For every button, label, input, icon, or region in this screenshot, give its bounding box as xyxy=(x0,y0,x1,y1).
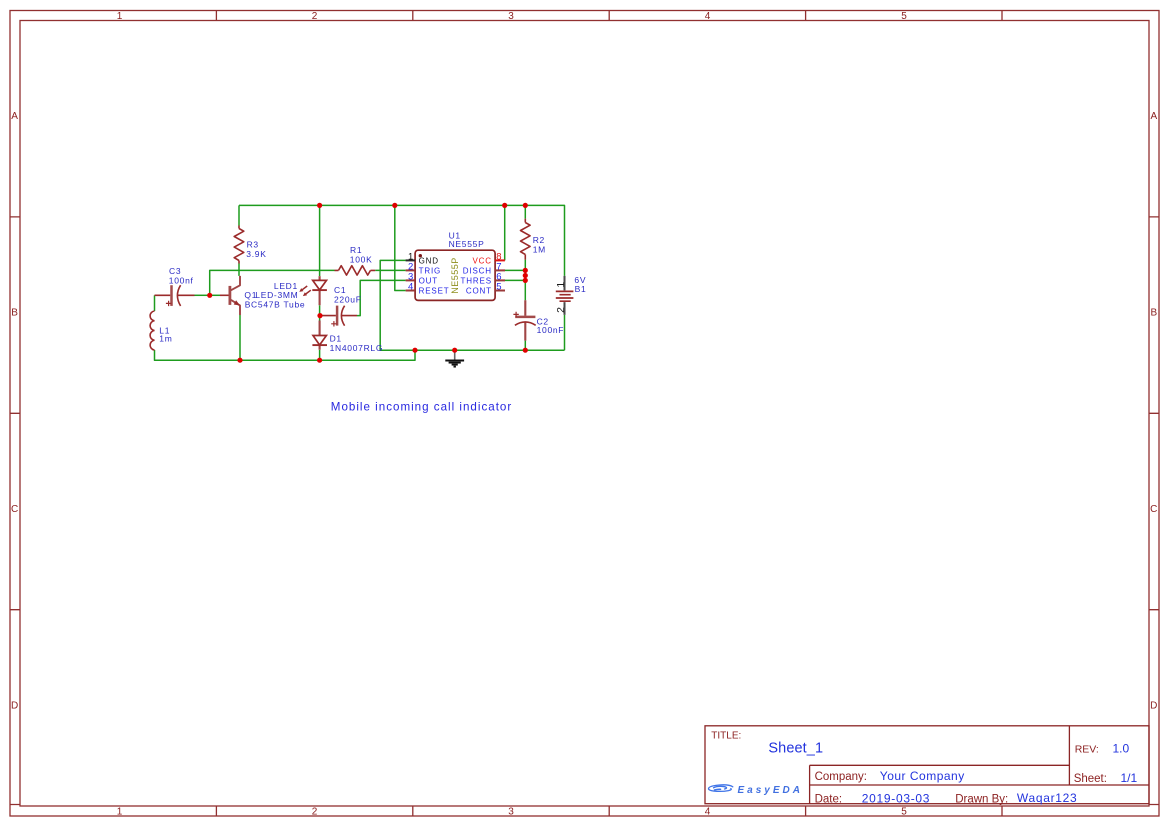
U1 pin 4 xyxy=(406,290,416,292)
svg-text:Date:: Date: xyxy=(815,793,843,805)
wire R1 to pin2 xyxy=(375,269,405,271)
svg-text:R1: R1 xyxy=(350,245,362,255)
wire top VCC bus xyxy=(155,205,565,360)
svg-text:3: 3 xyxy=(508,11,514,22)
battery B1 xyxy=(564,276,566,315)
svg-text:REV:: REV: xyxy=(1075,743,1099,755)
svg-text:CONT: CONT xyxy=(466,287,492,296)
U1 pin 3 xyxy=(406,279,416,281)
svg-text:Drawn By:: Drawn By: xyxy=(955,793,1008,805)
resistor R1 xyxy=(335,266,376,275)
resistor R3 xyxy=(234,226,244,264)
resistor R2 xyxy=(521,219,531,260)
wire LED1 to C1 node xyxy=(319,305,321,320)
title block xyxy=(705,726,1149,804)
svg-text:BC547B Tube: BC547B Tube xyxy=(245,300,306,310)
wire GND net xyxy=(380,260,564,350)
wire C2 to GND net xyxy=(524,341,526,351)
svg-text:VCC: VCC xyxy=(472,256,491,265)
svg-text:OUT: OUT xyxy=(419,277,438,286)
svg-text:Sheet:: Sheet: xyxy=(1074,773,1107,785)
U1 pin 7 xyxy=(495,269,505,271)
svg-text:Waqar123: Waqar123 xyxy=(1017,791,1078,805)
EasyEDA logo xyxy=(709,785,733,792)
svg-text:Sheet_1: Sheet_1 xyxy=(768,741,823,757)
svg-text:3: 3 xyxy=(508,807,514,818)
junction dots xyxy=(207,203,528,363)
svg-text:D: D xyxy=(11,700,18,711)
svg-text:GND: GND xyxy=(419,256,439,265)
svg-text:5: 5 xyxy=(901,807,907,818)
svg-text:B: B xyxy=(11,308,18,319)
wire DISCH pin7 to R2 xyxy=(505,269,525,271)
svg-text:2019-03-03: 2019-03-03 xyxy=(862,791,930,805)
svg-text:NE555P: NE555P xyxy=(449,239,485,249)
wire R3 bottom to Q1 collector xyxy=(238,264,240,276)
LED LED1 xyxy=(302,276,327,305)
svg-text:EasyEDA: EasyEDA xyxy=(738,785,803,796)
capacitor C1 xyxy=(322,306,357,327)
svg-text:TITLE:: TITLE: xyxy=(711,730,741,741)
wire D1 to bottom bus xyxy=(319,350,321,360)
svg-text:RESET: RESET xyxy=(419,287,450,296)
svg-text:1: 1 xyxy=(117,11,123,22)
svg-text:1M: 1M xyxy=(533,244,546,254)
ground xyxy=(445,350,464,366)
wire bus to VCC pin8 xyxy=(504,205,506,260)
svg-text:Mobile incoming call indicator: Mobile incoming call indicator xyxy=(331,400,512,413)
svg-text:TRIG: TRIG xyxy=(419,267,442,276)
U1 pin 2 xyxy=(406,269,416,271)
svg-text:4: 4 xyxy=(408,282,413,293)
svg-text:1: 1 xyxy=(117,807,123,818)
svg-text:5: 5 xyxy=(901,11,907,22)
svg-text:C1: C1 xyxy=(334,285,346,295)
wire L1 to bottom bus xyxy=(155,350,416,360)
transistor Q1 xyxy=(220,276,240,315)
svg-text:2: 2 xyxy=(312,11,318,22)
wire bus to RESET pin4 xyxy=(395,205,406,290)
svg-text:1.0: 1.0 xyxy=(1113,741,1130,755)
svg-text:2: 2 xyxy=(312,807,318,818)
svg-text:A: A xyxy=(11,111,18,122)
svg-text:100nf: 100nf xyxy=(169,276,194,286)
inductor L1 xyxy=(150,311,154,350)
svg-text:4: 4 xyxy=(705,11,711,22)
U1 pin 5 xyxy=(495,290,505,292)
svg-text:THRES: THRES xyxy=(461,277,492,286)
wire THRES pin6 to R2 xyxy=(505,279,525,281)
svg-text:1m: 1m xyxy=(159,334,172,344)
svg-text:NE555P: NE555P xyxy=(450,257,460,294)
wire bus to LED1 xyxy=(319,205,321,276)
svg-text:2: 2 xyxy=(555,307,567,313)
capacitor C3 xyxy=(155,285,195,306)
svg-text:4: 4 xyxy=(705,807,711,818)
wire C3 left to L1 xyxy=(154,295,156,311)
diode D1 xyxy=(312,321,327,350)
U1 reference labels xyxy=(449,231,485,249)
svg-text:DISCH: DISCH xyxy=(463,267,492,276)
svg-text:3.9K: 3.9K xyxy=(246,249,266,259)
U1 pin 1 xyxy=(406,259,416,261)
svg-text:Your Company: Your Company xyxy=(880,769,965,783)
svg-text:5: 5 xyxy=(496,282,501,293)
svg-text:R3: R3 xyxy=(247,239,259,249)
op-amp U1 NE555P body xyxy=(415,250,495,300)
svg-text:220uF: 220uF xyxy=(334,295,362,305)
wire Q1 emitter to bus xyxy=(239,315,241,360)
capacitor C2 xyxy=(513,300,535,340)
svg-text:D: D xyxy=(1150,700,1157,711)
svg-text:1/1: 1/1 xyxy=(1121,771,1138,785)
wire base node to TRIG via R1 xyxy=(210,270,335,295)
U1 pin numbers xyxy=(408,251,502,292)
wire battery bottom xyxy=(564,315,566,350)
wire bus to R2 xyxy=(524,205,526,218)
wire C3 right to base node xyxy=(195,294,210,296)
U1 pin 8 xyxy=(495,259,505,261)
U1 pin 6 xyxy=(495,279,505,281)
svg-text:1: 1 xyxy=(555,282,567,288)
wire C1 to OUT pin3 xyxy=(357,280,406,315)
svg-text:B1: B1 xyxy=(575,284,587,294)
svg-text:C: C xyxy=(11,504,18,515)
svg-text:A: A xyxy=(1150,111,1157,122)
svg-text:1N4007RLG: 1N4007RLG xyxy=(330,343,384,353)
wire R3 top lead xyxy=(238,205,240,225)
U1 pin names xyxy=(419,256,492,295)
wire R2 to C2 xyxy=(524,260,526,301)
svg-text:B: B xyxy=(1150,308,1157,319)
svg-text:Company:: Company: xyxy=(815,771,867,783)
svg-text:C: C xyxy=(1150,504,1157,515)
svg-text:100K: 100K xyxy=(350,255,373,265)
svg-text:100nF: 100nF xyxy=(537,325,565,335)
wire base node to Q1 base xyxy=(210,294,220,296)
svg-text:C3: C3 xyxy=(169,266,181,276)
